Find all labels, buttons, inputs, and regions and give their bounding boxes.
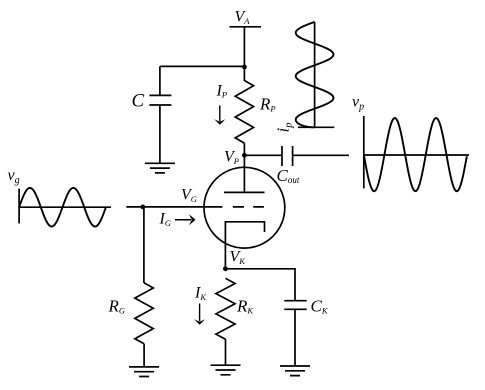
wire VK to CK (225, 269, 295, 301)
node VP dot (242, 153, 247, 158)
ground under C (145, 163, 175, 173)
capacitor CK plates (284, 301, 306, 310)
vp waveform sine (364, 118, 467, 191)
resistor RG zigzag (135, 283, 154, 344)
grid wire (126, 206, 222, 208)
current IK arrow (199, 304, 201, 322)
wire C bottom lead (159, 105, 161, 163)
triode envelope circle (204, 167, 285, 248)
wire CK to ground (294, 309, 296, 366)
wire VA to junction (243, 27, 245, 81)
svg-text:VP: VP (224, 149, 239, 167)
ground under CK (280, 366, 310, 376)
ip waveform sine (296, 22, 334, 127)
current IG arrow (175, 219, 191, 221)
ground under RK (211, 365, 241, 375)
vg waveform sine (19, 188, 106, 227)
wire RK to ground (225, 339, 227, 365)
svg-text:VK: VK (230, 249, 247, 267)
resistor RK zigzag (216, 278, 235, 339)
ip waveform axis (298, 22, 334, 127)
node VK dot (223, 266, 228, 271)
vp waveform axes (364, 116, 469, 188)
ground under RG (129, 367, 159, 377)
svg-text:IG: IG (159, 211, 171, 229)
svg-text:VG: VG (181, 187, 197, 205)
wire Cout to output (293, 154, 349, 156)
resistor RP zigzag (235, 81, 253, 144)
svg-text:VA: VA (235, 9, 251, 27)
grid dashes (233, 206, 264, 208)
wire C top lead (159, 66, 161, 95)
wire RP to VP node (243, 143, 245, 155)
wire VP to Cout (244, 154, 281, 156)
capacitor Cout plates (282, 146, 293, 166)
plate lead (243, 155, 245, 192)
wire grid node to RG (143, 207, 145, 283)
vg waveform axes (19, 189, 111, 224)
svg-text:IP: IP (216, 83, 228, 100)
svg-text:RG: RG (108, 297, 126, 316)
svg-text:RK: RK (236, 297, 254, 316)
junction node dot (242, 65, 247, 70)
svg-text:RP: RP (259, 95, 276, 114)
current IP arrow (219, 105, 221, 121)
grid node dot (141, 205, 146, 210)
plate bar (224, 191, 265, 193)
wire RG to ground (143, 344, 145, 367)
svg-text:ip: ip (274, 123, 295, 133)
svg-text:IK: IK (194, 285, 207, 303)
cathode (225, 222, 264, 269)
capacitor C plates (149, 95, 171, 105)
svg-text:CK: CK (311, 297, 329, 316)
supply terminal VA bar (230, 26, 262, 28)
svg-text:Cout: Cout (277, 166, 300, 185)
svg-text:vp: vp (352, 94, 364, 113)
svg-text:C: C (132, 91, 145, 112)
svg-text:vg: vg (8, 167, 20, 186)
wire junction to C branch (160, 65, 245, 67)
